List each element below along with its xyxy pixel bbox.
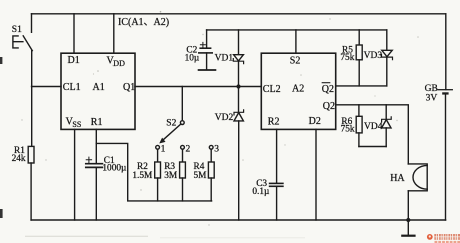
resistor R1 bbox=[28, 146, 34, 163]
wire R1 to bottom rail bbox=[30, 163, 32, 220]
wire CL1 to S1 line bbox=[32, 86, 62, 88]
wire R2 pin down to C3 bbox=[276, 129, 278, 183]
svg-text:24k: 24k bbox=[12, 154, 26, 164]
svg-text:HA: HA bbox=[390, 173, 405, 184]
svg-text:VD3: VD3 bbox=[364, 51, 383, 61]
capacitor C1 bbox=[86, 157, 103, 167]
svg-text:75k: 75k bbox=[340, 53, 354, 63]
svg-text:Q1: Q1 bbox=[123, 82, 135, 93]
svg-text:S1: S1 bbox=[12, 25, 22, 35]
wire R1 pin down to C1 bbox=[95, 129, 97, 163]
scan edge marks bbox=[0, 57, 3, 218]
zener VD2 bbox=[234, 87, 244, 221]
IC block A1 bbox=[61, 53, 135, 129]
supply branch wire bbox=[207, 29, 387, 31]
svg-text:2: 2 bbox=[186, 145, 191, 155]
wire D1 pin to rail bbox=[73, 14, 75, 53]
svg-text:3: 3 bbox=[214, 145, 219, 155]
svg-text:IC(A1、A2): IC(A1、A2) bbox=[118, 17, 169, 28]
svg-text:VD2: VD2 bbox=[215, 113, 234, 123]
wire C3 to bottom rail bbox=[276, 186, 278, 220]
svg-text:A1: A1 bbox=[93, 82, 105, 93]
svg-text:CL2: CL2 bbox=[263, 84, 281, 95]
svg-text:R1: R1 bbox=[91, 117, 103, 128]
junction dot speaker to rail bbox=[406, 218, 410, 222]
top positive rail bbox=[32, 13, 446, 15]
svg-text:D1: D1 bbox=[68, 55, 80, 66]
wire C1 to bottom rail bbox=[95, 167, 97, 220]
svg-text:10µ: 10µ bbox=[185, 54, 200, 64]
svg-text:75k: 75k bbox=[341, 124, 355, 134]
zener VD3 bbox=[382, 30, 393, 86]
svg-text:1.5M: 1.5M bbox=[132, 171, 152, 181]
speaker HA bbox=[408, 164, 427, 220]
svg-text:S2: S2 bbox=[290, 55, 301, 66]
wire R3 bottom bbox=[182, 178, 184, 201]
wire D2 pin to bottom rail bbox=[315, 129, 317, 220]
wire R2 bottom bbox=[157, 178, 159, 201]
wire contact2 to R3 bbox=[182, 149, 184, 162]
wire contact3 to R4 bbox=[210, 149, 212, 162]
wire contact1 to R2 bbox=[157, 149, 159, 162]
selector switch S2 bbox=[156, 87, 213, 150]
svg-text:5M: 5M bbox=[194, 171, 207, 181]
svg-text:S2: S2 bbox=[166, 118, 176, 128]
wire S1 to R1 bbox=[31, 50, 33, 146]
wire Q1 to CL2 bbox=[135, 86, 261, 88]
zener VD1 bbox=[233, 30, 243, 87]
battery GB bbox=[438, 14, 452, 220]
resistor R4 bbox=[208, 162, 214, 178]
junction dot Q1 wire x VD1/VD2 bbox=[236, 84, 240, 88]
svg-text:DD: DD bbox=[113, 59, 125, 68]
watermark logo bbox=[427, 234, 460, 243]
wire R4 bottom bbox=[210, 178, 212, 201]
svg-text:1000µ: 1000µ bbox=[102, 164, 127, 174]
resistor R5 bbox=[356, 30, 362, 86]
wire Q2bar to R5/VD3 bbox=[336, 85, 387, 87]
svg-text:3V: 3V bbox=[426, 94, 438, 104]
svg-text:3M: 3M bbox=[164, 171, 177, 181]
svg-text:Q2: Q2 bbox=[323, 101, 335, 112]
capacitor C3 bbox=[270, 183, 283, 186]
wire S2 pin to branch bbox=[295, 30, 297, 53]
svg-text:SS: SS bbox=[72, 120, 81, 129]
scan streaks (decorative) bbox=[25, 236, 305, 238]
svg-text:Q2: Q2 bbox=[322, 84, 334, 95]
svg-text:0.1µ: 0.1µ bbox=[252, 187, 270, 197]
svg-text:D2: D2 bbox=[309, 116, 321, 127]
svg-text:VD1: VD1 bbox=[215, 53, 234, 63]
resistor R2 bbox=[155, 162, 161, 178]
capacitor C2 bbox=[199, 30, 216, 70]
bottom negative rail bbox=[31, 219, 446, 221]
resistor R6 bbox=[356, 105, 362, 147]
ground bbox=[402, 220, 414, 236]
svg-text:R2: R2 bbox=[268, 116, 280, 127]
svg-text:1: 1 bbox=[161, 145, 166, 155]
wire VDD pin to rail bbox=[113, 14, 115, 53]
zener VD4 bbox=[382, 105, 392, 147]
svg-text:A2: A2 bbox=[292, 83, 304, 94]
wire VSS pin to bottom rail bbox=[74, 129, 76, 220]
IC block A2 bbox=[261, 53, 335, 129]
switch S1 bbox=[13, 36, 32, 51]
resistor R3 bbox=[180, 162, 186, 178]
wire R6/VD4 bottom join bbox=[359, 146, 386, 148]
svg-text:CL1: CL1 bbox=[63, 82, 81, 93]
wire Q2 output bbox=[336, 105, 409, 164]
wire top rail down to S1 top contact bbox=[31, 14, 33, 33]
wire timing jog R1pin to resistor network bbox=[96, 143, 211, 201]
svg-text:VD4: VD4 bbox=[364, 122, 383, 132]
